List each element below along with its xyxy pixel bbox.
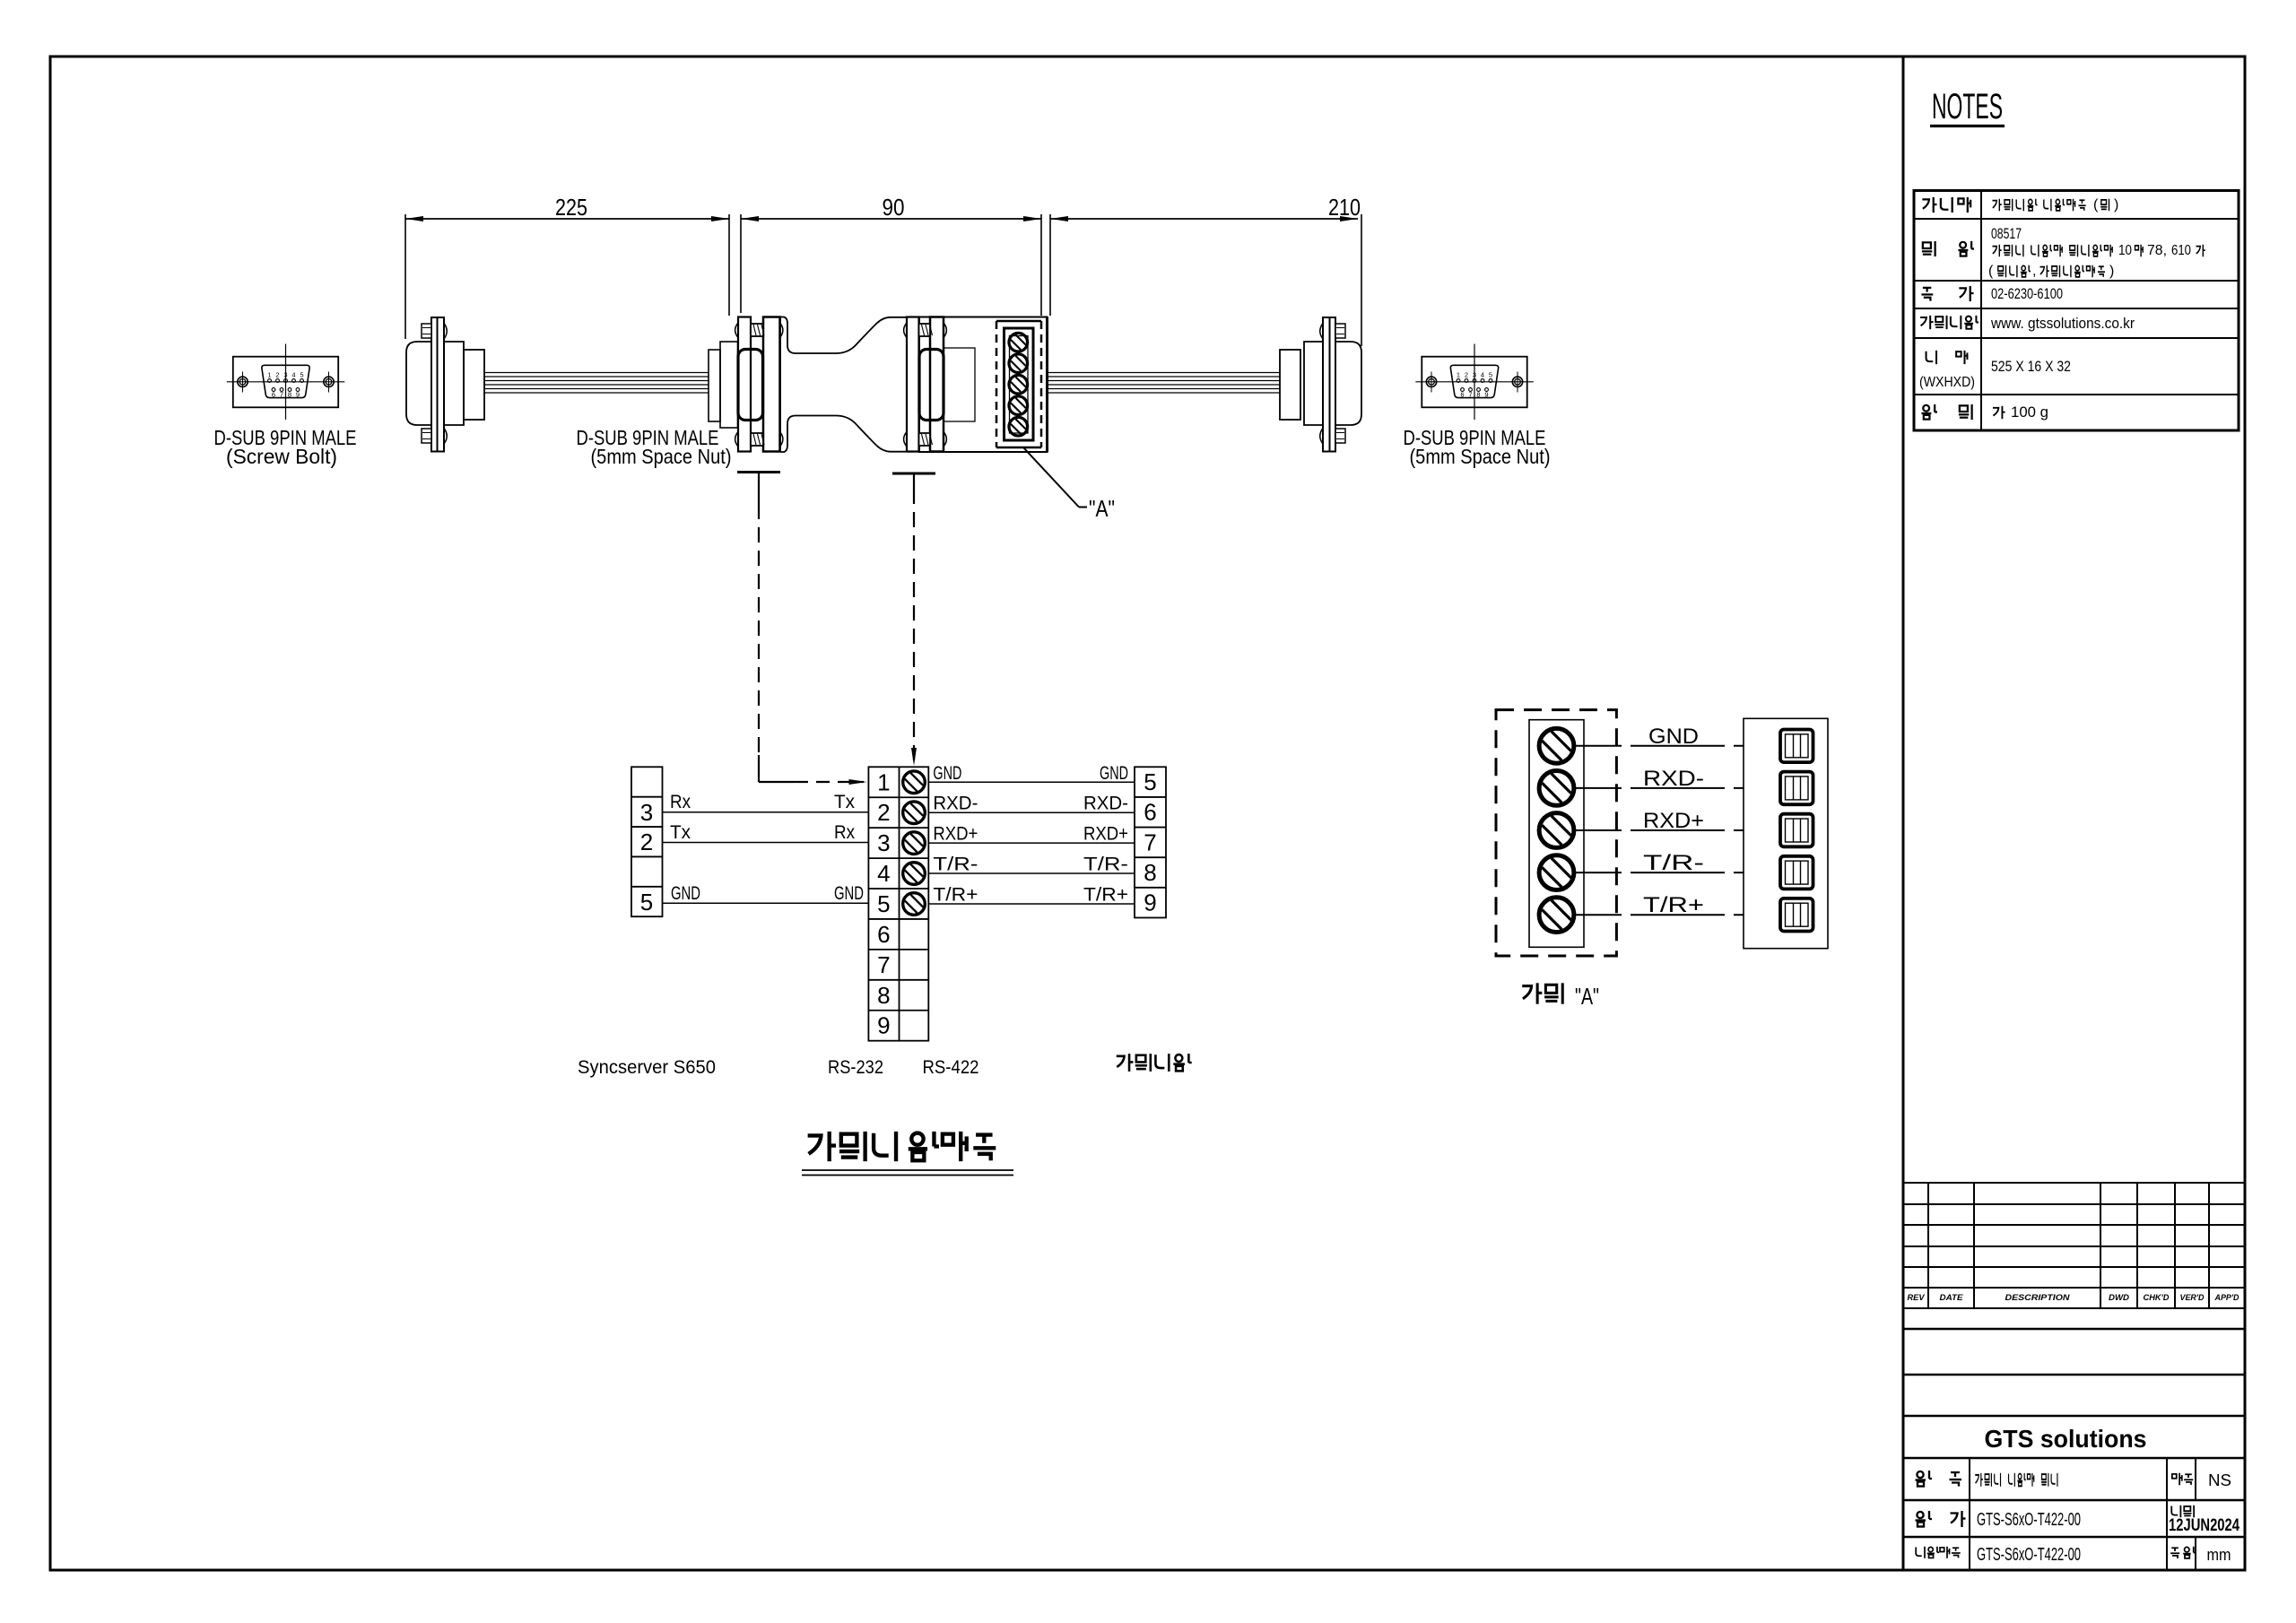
svg-text:(WXHXD): (WXHXD) [1919, 375, 1975, 390]
svg-text:8: 8 [288, 391, 291, 399]
svg-text:,: , [2032, 264, 2036, 279]
svg-text:T/R+: T/R+ [1643, 893, 1704, 917]
svg-text:9: 9 [1144, 890, 1156, 916]
svg-text:Tx: Tx [834, 792, 855, 812]
svg-text:5: 5 [640, 889, 653, 916]
svg-text:T/R-: T/R- [1083, 855, 1128, 875]
svg-text:78,: 78, [2147, 243, 2167, 258]
svg-text:GND: GND [1648, 725, 1699, 749]
svg-text:8: 8 [877, 982, 890, 1009]
svg-text:1: 1 [1457, 371, 1460, 379]
svg-text:6: 6 [1460, 391, 1464, 399]
svg-text:3: 3 [640, 799, 653, 826]
svg-text:RS-422: RS-422 [923, 1057, 979, 1078]
svg-text:RXD-: RXD- [1083, 794, 1128, 814]
svg-text:(: ( [1988, 264, 1994, 279]
svg-text:610: 610 [2171, 243, 2191, 258]
svg-text:10: 10 [2118, 243, 2132, 258]
svg-text:GTS solutions: GTS solutions [1985, 1425, 2147, 1453]
svg-text:Syncserver S650: Syncserver S650 [578, 1057, 716, 1078]
svg-text:6: 6 [877, 921, 890, 948]
svg-text:RXD-: RXD- [933, 794, 978, 814]
svg-text:(5mm Space Nut): (5mm Space Nut) [1410, 445, 1551, 468]
svg-text:5: 5 [1489, 371, 1492, 379]
svg-text:CHK'D: CHK'D [2144, 1293, 2170, 1302]
svg-text:6: 6 [1144, 799, 1156, 826]
svg-text:5: 5 [877, 890, 890, 917]
svg-text:3: 3 [283, 371, 287, 379]
svg-text:"A": "A" [1575, 983, 1599, 1010]
svg-text:GND: GND [933, 763, 961, 784]
svg-text:GND: GND [1100, 763, 1128, 784]
svg-text:210: 210 [1328, 194, 1361, 221]
svg-text:3: 3 [877, 829, 890, 856]
svg-text:RXD-: RXD- [1643, 767, 1704, 791]
svg-text:APP'D: APP'D [2214, 1293, 2239, 1302]
svg-text:RXD+: RXD+ [933, 824, 978, 845]
svg-text:RXD+: RXD+ [1643, 809, 1704, 833]
svg-text:02-6230-6100: 02-6230-6100 [1991, 285, 2063, 302]
svg-text:GTS-S6xO-T422-00: GTS-S6xO-T422-00 [1977, 1510, 2081, 1530]
svg-text:REV: REV [1908, 1293, 1926, 1302]
svg-text:Tx: Tx [670, 822, 691, 843]
svg-text:9: 9 [877, 1012, 890, 1039]
svg-text:NOTES: NOTES [1932, 87, 2003, 126]
svg-text:9: 9 [1484, 391, 1488, 399]
svg-text:6: 6 [272, 391, 275, 399]
svg-text:7: 7 [1144, 829, 1156, 855]
svg-text:9: 9 [296, 391, 300, 399]
svg-text:): ) [2109, 264, 2114, 279]
svg-text:(: ( [2093, 197, 2099, 213]
svg-text:3: 3 [1473, 371, 1476, 379]
svg-text:2: 2 [1465, 371, 1468, 379]
svg-text:GND: GND [834, 883, 864, 904]
svg-text:RS-232: RS-232 [828, 1057, 883, 1078]
svg-text:Rx: Rx [670, 792, 691, 812]
svg-text:1: 1 [267, 371, 271, 379]
svg-text:2: 2 [877, 799, 890, 826]
svg-text:VER'D: VER'D [2180, 1293, 2205, 1302]
svg-text:4: 4 [1481, 371, 1484, 379]
svg-text:GTS-S6xO-T422-00: GTS-S6xO-T422-00 [1977, 1545, 2081, 1565]
svg-text:5: 5 [300, 371, 303, 379]
svg-text:Rx: Rx [834, 822, 855, 843]
svg-text:mm: mm [2207, 1546, 2231, 1564]
svg-text:4: 4 [877, 860, 890, 887]
svg-text:2: 2 [640, 829, 653, 855]
svg-text:100 g: 100 g [2011, 404, 2048, 421]
svg-text:T/R+: T/R+ [1083, 884, 1128, 905]
svg-text:(5mm Space Nut): (5mm Space Nut) [591, 445, 732, 468]
svg-text:90: 90 [883, 194, 905, 221]
svg-text:GND: GND [671, 883, 700, 904]
svg-text:12JUN2024: 12JUN2024 [2169, 1516, 2239, 1535]
svg-text:8: 8 [1144, 859, 1156, 886]
svg-text:2: 2 [275, 371, 279, 379]
svg-text:T/R+: T/R+ [933, 884, 978, 905]
svg-text:DWD: DWD [2109, 1293, 2130, 1302]
svg-text:4: 4 [291, 371, 295, 379]
svg-text:www. gtssolutions.co.kr: www. gtssolutions.co.kr [1990, 315, 2135, 332]
svg-text:DATE: DATE [1940, 1293, 1964, 1302]
svg-text:225: 225 [555, 194, 587, 221]
svg-text:7: 7 [877, 951, 890, 978]
svg-text:): ) [2114, 197, 2118, 213]
svg-text:RXD+: RXD+ [1083, 824, 1128, 845]
svg-text:(Screw Bolt): (Screw Bolt) [226, 445, 337, 468]
svg-text:525 X 16 X 32: 525 X 16 X 32 [1991, 358, 2071, 375]
svg-text:7: 7 [280, 391, 283, 399]
svg-text:8: 8 [1476, 391, 1480, 399]
svg-text:T/R-: T/R- [933, 855, 978, 875]
svg-text:DESCRIPTION: DESCRIPTION [2005, 1293, 2071, 1302]
svg-text:5: 5 [1144, 768, 1156, 795]
svg-text:08517: 08517 [1991, 225, 2022, 242]
svg-text:"A": "A" [1089, 495, 1115, 522]
svg-text:T/R-: T/R- [1643, 851, 1704, 875]
svg-text:7: 7 [1468, 391, 1472, 399]
svg-text:NS: NS [2208, 1471, 2231, 1489]
svg-text:1: 1 [877, 768, 890, 795]
